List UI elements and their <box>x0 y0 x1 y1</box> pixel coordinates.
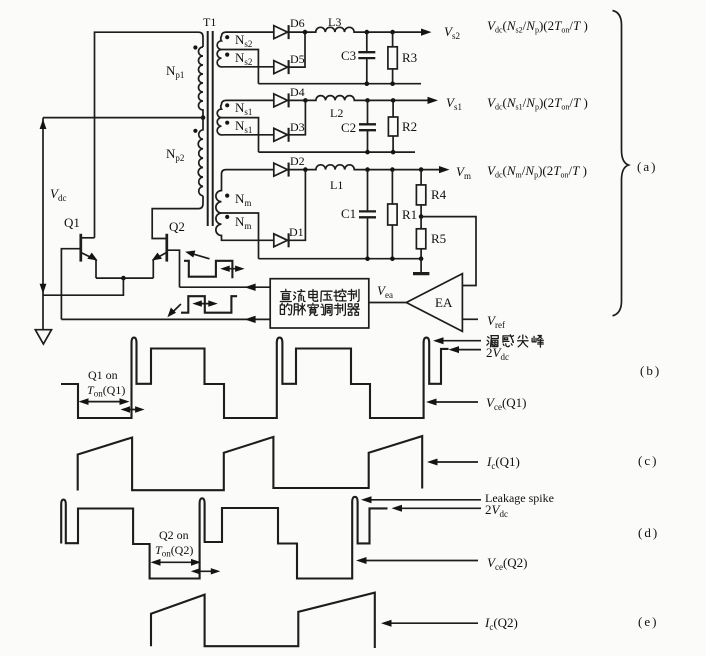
waveform (e) Ic(Q2) trace <box>151 593 375 648</box>
rail Vm return <box>259 258 422 260</box>
rail Vs2 return <box>258 83 421 85</box>
diode D1 <box>274 233 289 247</box>
svg-text:D1: D1 <box>289 225 304 239</box>
svg-text:D3: D3 <box>290 120 305 134</box>
resistor R5 <box>416 217 425 259</box>
waveform (b) Vce(Q1) trace <box>61 338 449 418</box>
svg-text:T1: T1 <box>203 15 216 29</box>
Vce(Q1) callout <box>426 399 478 406</box>
svg-text:D5: D5 <box>290 52 305 66</box>
svg-text:R3: R3 <box>402 50 417 65</box>
resistor R1 <box>388 170 397 259</box>
leakage spike label (b): 漏感尖峰 <box>487 335 543 347</box>
waveform (d) Vce(Q2) trace <box>61 497 387 579</box>
transistor Q2 <box>152 234 180 287</box>
svg-text:Q2: Q2 <box>169 219 185 234</box>
svg-text:L1: L1 <box>330 178 343 192</box>
drive waveform glyph Q1 <box>167 296 237 317</box>
Ic(Q2) callout <box>381 620 478 627</box>
node R3 top <box>390 30 395 35</box>
small double arrow (b) <box>121 406 145 412</box>
node C2 top <box>365 98 370 103</box>
transformer core <box>208 31 213 226</box>
node R5 bottom <box>419 256 424 261</box>
node C3 top <box>365 30 370 35</box>
wire center tap to left rail <box>43 117 203 119</box>
wire PWM to Q2 base <box>180 286 271 288</box>
Ic(Q1) callout <box>427 459 478 466</box>
svg-text:(e): (e) <box>638 614 658 629</box>
waveform (c) Ic(Q1) trace <box>78 436 423 490</box>
wire D1 cathode up to D2 node <box>289 170 306 241</box>
node D2/D1 <box>303 167 308 172</box>
node R4 top <box>419 167 424 172</box>
arrow Vm <box>439 166 450 173</box>
node C3 bottom <box>365 81 370 86</box>
node R2 top <box>391 98 396 103</box>
node R3 bottom <box>390 81 395 86</box>
node R1 top <box>390 167 395 172</box>
capacitor C1 <box>359 170 376 259</box>
output line Vs1 with L2 <box>289 96 428 101</box>
svg-text:D6: D6 <box>290 16 305 30</box>
ground <box>35 330 51 344</box>
svg-text:D2: D2 <box>290 154 305 168</box>
wire D5 cathode up to D6 node <box>289 32 305 67</box>
PWM controller box <box>270 279 369 328</box>
svg-text:Ic(Q2): Ic(Q2) <box>484 615 518 632</box>
diode D6 <box>274 25 289 39</box>
arrow Vdc up <box>40 119 47 129</box>
node C1 top <box>365 167 370 172</box>
svg-text:(a): (a) <box>637 159 657 174</box>
svg-text:(b): (b) <box>640 363 661 378</box>
secondary winding Ns2 pair <box>217 32 274 84</box>
wire R4/R5 junction to EA input <box>421 217 476 286</box>
wire EA output to PWM box <box>369 302 407 304</box>
output line Vs2 with L3 <box>289 27 422 32</box>
2Vdc callout (b) <box>449 346 482 353</box>
wire PWM to Q1 base <box>61 318 270 320</box>
svg-text:R2: R2 <box>402 119 417 134</box>
Nm dots <box>225 194 229 198</box>
Ns1 dots <box>225 103 229 107</box>
svg-text:Ton(Q1): Ton(Q1) <box>87 383 125 399</box>
node R1 bottom <box>390 256 395 261</box>
wire EA ref input <box>462 318 478 320</box>
svg-text:R4: R4 <box>431 187 447 202</box>
primary winding Np2 <box>198 118 203 196</box>
arrow on Q2 drive line <box>245 284 256 291</box>
svg-text:C3: C3 <box>341 48 356 63</box>
secondary winding Nm pair <box>216 170 274 259</box>
wire left rail with Vdc measure <box>42 118 44 330</box>
svg-text:R5: R5 <box>431 231 446 246</box>
svg-text:Ic(Q1): Ic(Q1) <box>486 454 520 471</box>
PWM box text line2: 的脉宽调制器 <box>280 303 359 315</box>
Np1 phase dot <box>193 45 197 49</box>
Leakage spike callout (d) <box>361 496 481 503</box>
rail Vs1 return <box>259 151 416 153</box>
arrow on Q1 drive line <box>245 316 256 323</box>
svg-text:Ton(Q2): Ton(Q2) <box>155 543 193 559</box>
wire Np2 bottom to Q2 collector <box>152 196 203 239</box>
node D6/D5 <box>303 30 308 35</box>
secondary winding Ns1 pair <box>217 100 274 152</box>
arrow Vs1 <box>428 97 439 104</box>
diode D3 <box>274 128 289 142</box>
svg-text:Q1 on: Q1 on <box>88 368 118 382</box>
node C1 bottom <box>365 256 370 261</box>
brace (a) <box>613 11 629 316</box>
ground bar secondary <box>413 259 429 274</box>
resistor R2 <box>388 100 397 152</box>
node D4/D3 <box>303 98 308 103</box>
svg-text:R1: R1 <box>402 207 417 222</box>
Np2 phase dot <box>193 129 197 133</box>
node R4/R5 junction <box>419 214 424 219</box>
svg-text:Q2 on: Q2 on <box>159 528 189 542</box>
diode D5 <box>274 60 289 74</box>
svg-text:L2: L2 <box>330 106 343 120</box>
svg-text:Vce(Q2): Vce(Q2) <box>487 555 528 572</box>
capacitor C3 <box>358 32 375 84</box>
Ns2 dots <box>225 35 229 39</box>
wire D3 cathode up to D4 node <box>289 100 306 134</box>
dimension arrow Ton(Q2) <box>151 559 202 566</box>
node R2 bottom <box>391 150 396 155</box>
drive waveform glyph Q2 <box>184 251 245 279</box>
wire top rail from left vertical to primary top <box>95 32 204 238</box>
wire common emitter <box>96 277 153 279</box>
2Vdc callout (d) <box>392 505 482 512</box>
dimension arrow Ton(Q1) <box>79 398 130 405</box>
svg-text:C2: C2 <box>341 120 356 135</box>
capacitor C2 <box>359 100 376 152</box>
svg-text:Vce(Q1): Vce(Q1) <box>486 395 527 412</box>
svg-text:Q1: Q1 <box>64 215 80 230</box>
svg-text:EA: EA <box>435 295 453 310</box>
arrow Vs2 <box>421 28 432 35</box>
node: primary center tap <box>201 115 206 120</box>
svg-text:(d): (d) <box>638 525 659 540</box>
transistor Q1 <box>61 234 97 320</box>
resistor R3 <box>388 32 397 84</box>
leakage spike callout (b) <box>433 337 481 344</box>
Vce(Q2) callout <box>356 557 478 564</box>
diode D4 <box>274 93 289 107</box>
svg-text:C1: C1 <box>341 206 356 221</box>
resistor R4 <box>416 170 425 217</box>
node emitter junction <box>121 276 126 281</box>
SECTION A: converter schematic <box>35 15 216 344</box>
svg-text:D4: D4 <box>290 85 305 99</box>
svg-text:L3: L3 <box>328 15 341 29</box>
diode D2 <box>274 163 289 177</box>
arrow Vdc down <box>40 284 47 294</box>
PWM box text line1: 直流电压控制 <box>280 289 359 301</box>
svg-text:(c): (c) <box>638 453 658 468</box>
op-amp EA <box>406 274 462 332</box>
primary winding Np1 <box>199 47 204 118</box>
small double arrow (d) <box>191 568 221 574</box>
node C2 bottom <box>365 150 370 155</box>
output line Vm with L1 <box>289 165 440 170</box>
wire emitter junction to ground rail <box>43 278 123 295</box>
